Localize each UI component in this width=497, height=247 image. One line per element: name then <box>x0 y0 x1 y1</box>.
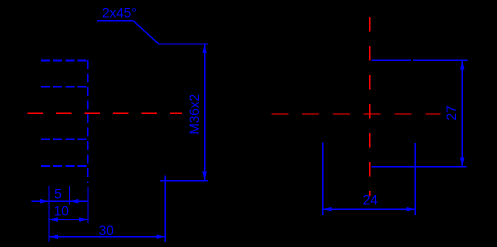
dim line 24 <box>323 208 415 210</box>
arrow 10 left <box>49 217 58 221</box>
arrow 24 left <box>323 207 332 211</box>
hidden line right vertical (left view) <box>87 60 89 183</box>
hidden line bottom inner (left view) <box>41 138 89 140</box>
hidden line top outer (left view) <box>41 60 89 62</box>
arrow 24 right <box>406 207 415 211</box>
extension line v5 (x=165) <box>164 176 166 242</box>
svg-text:M36x2: M36x2 <box>187 94 202 135</box>
dim line 27 <box>461 61 463 167</box>
centerline vertical (right view) <box>369 17 371 196</box>
extension line top chamfer <box>159 43 209 45</box>
arrow M36 top <box>202 44 206 53</box>
leader diagonal <box>133 21 159 44</box>
extension line v3 (x=88) <box>87 187 89 223</box>
extension line v1 (x=49) <box>48 186 50 242</box>
extension line v7 (x=322.8) <box>322 143 324 216</box>
arrow 5 right (outside pointing left) <box>70 199 79 203</box>
arrow M36 bottom <box>202 172 206 181</box>
dimension line M36x2 <box>204 44 206 180</box>
svg-text:30: 30 <box>99 223 114 238</box>
top edge line (right view) segment a <box>371 59 411 61</box>
leader underline <box>97 20 133 22</box>
top edge line (right view) segment b <box>413 59 468 61</box>
dim line 10 <box>49 219 88 221</box>
arrow 30 right <box>156 235 165 239</box>
hidden line top inner (left view) <box>41 86 89 88</box>
arrow 27 top <box>460 61 464 70</box>
centerline horizontal (right view) <box>271 113 440 115</box>
dim line 30 <box>49 236 165 238</box>
arrow 30 left <box>49 235 58 239</box>
svg-text:2x45°: 2x45° <box>102 5 137 20</box>
svg-text:27: 27 <box>444 105 459 120</box>
bottom edge line (right view) <box>371 166 466 168</box>
svg-text:5: 5 <box>54 187 62 202</box>
dim line 5 <box>32 200 89 202</box>
extension line bottom right of left view <box>160 180 208 182</box>
arrow 27 bottom <box>460 158 464 167</box>
extension line v2 (x=69.5) <box>69 186 71 205</box>
extension line v6 (x=415.2) <box>414 143 416 215</box>
centerline left view <box>28 112 182 114</box>
arrow 10 right <box>79 217 88 221</box>
svg-text:10: 10 <box>54 203 69 218</box>
hidden line bottom outer (left view) <box>41 165 89 167</box>
svg-text:24: 24 <box>363 192 379 207</box>
arrow 5 left (outside pointing right) <box>40 199 49 203</box>
